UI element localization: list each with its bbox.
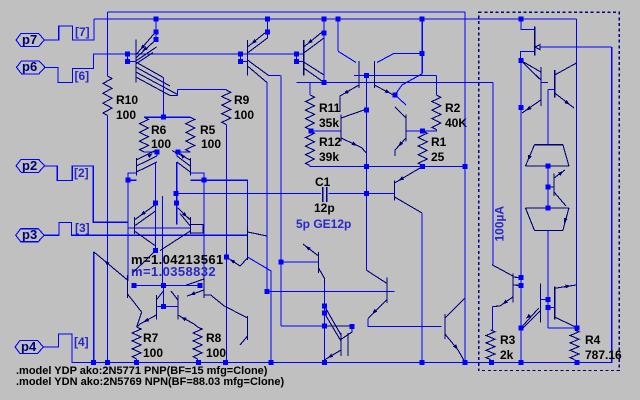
svg-text:787.16: 787.16 [585,348,622,362]
svg-text:R10: R10 [116,93,138,107]
transistor Q5 (below R1) [394,180,396,200]
transistor Q3 (left of C1 column) [340,115,342,142]
wire R6 R5 top bus [144,116,190,118]
collector Q15 to R7 [128,294,142,327]
svg-text:R7: R7 [143,331,159,345]
transistor Q12 stack (PNP x4 top-left) [135,40,137,83]
port p3 [16,229,45,242]
wire mirror line y82 [296,82,493,264]
svg-text:R3: R3 [500,333,516,347]
svg-text:100: 100 [234,108,254,122]
wire centre column x366 [365,75,367,270]
transistor Q10 (mid, near R9) [247,227,249,260]
svg-text:2k: 2k [500,348,514,362]
wire box left column [520,61,522,363]
transistor QD4 QD5 box bottom pair [540,284,554,323]
wire trap1 to trap2 [547,166,549,208]
svg-text:39k: 39k [319,150,339,164]
svg-text:100µA: 100µA [493,206,507,242]
transistor Q14 stack (PNP right-top) [303,40,305,76]
wire p2 run [45,166,191,228]
transistor QO2 output [445,298,465,339]
svg-text:[6]: [6] [75,69,90,83]
wire x465 supply column [464,12,466,362]
resistor R5 [186,117,195,152]
svg-text:[3]: [3] [75,221,90,235]
svg-text:p4: p4 [21,339,37,354]
svg-text:R5: R5 [200,123,216,137]
svg-text:40K: 40K [445,116,467,130]
resistor R4 [570,330,579,360]
svg-text:R6: R6 [151,123,167,137]
wire R1 bottom to rails [367,165,466,167]
svg-text:100: 100 [151,137,171,151]
wire Q16 emitter to R9 col [204,295,226,307]
svg-text:[2]: [2] [74,166,89,180]
wire R11-R12 node to Q3 base [310,130,367,167]
wire rail stub x422 [395,19,422,95]
svg-text:[4]: [4] [74,335,89,349]
svg-text:C1: C1 [315,175,331,189]
wire Q2 emitter node [393,95,406,105]
svg-text:p2: p2 [22,158,37,173]
svg-text:R11: R11 [319,101,341,115]
resistor R3 [486,330,495,360]
wire R9 column [225,125,227,363]
wire x267 column [266,83,268,292]
wire Q8 Q9 emitters to node [134,231,190,251]
transistor QM comp (near 5p) [318,252,320,273]
resistor R10 [103,76,112,116]
resistor R8 [193,327,202,359]
svg-text:R9: R9 [234,93,250,107]
transistor Q17 Q18 bottom centre-left pair [156,295,178,319]
port p4 [15,341,44,354]
wire R10 column [107,12,109,362]
wire Q6 base chain [128,173,136,281]
svg-text:12p: 12p [314,201,335,215]
wire output row y291 [267,291,395,293]
wire R6 R5 bottoms [144,151,190,153]
resistor R12 [306,131,315,166]
wire second rail [94,18,577,20]
transistor QD1 QD2 box top pair [541,67,555,106]
wire C1 node [176,193,367,195]
svg-text:p6: p6 [22,59,37,74]
port p6 [17,61,46,74]
svg-text:R2: R2 [445,101,461,115]
svg-text:p7: p7 [22,32,37,47]
wire x422 vertical [421,213,423,362]
junction squares [154,17,159,22]
svg-text:25: 25 [431,150,445,164]
transistor QD3 mid [553,174,555,197]
transistor QL box left [512,273,514,302]
svg-text:[7]: [7] [75,25,90,39]
svg-text:R4: R4 [585,333,601,347]
transistor QB bottom mid cluster [341,333,348,356]
port p7 [16,34,45,47]
resistor R7 [132,327,141,359]
wire QM collector column [323,283,325,362]
wire emitter join to R6R5 [163,78,226,118]
wire Q12 base taps [128,54,136,61]
wire Q13 base tap [241,54,248,61]
wire net93 lower vertical [93,252,95,362]
wire V+ rail top [108,11,466,13]
wire T4 emitter column [248,257,272,362]
trapezoid PNP pair upper [526,145,569,166]
svg-text:m=1.0358832: m=1.0358832 [131,264,216,279]
svg-text:100: 100 [143,346,163,360]
svg-text:R8: R8 [206,331,222,345]
emitter fan Q14 [304,62,324,82]
svg-text:5p GE12p: 5p GE12p [296,217,351,231]
svg-text:R1: R1 [431,135,447,149]
svg-text:100: 100 [206,346,226,360]
emitter Q15 to net93 [94,251,156,280]
emitter run Q13 [248,60,269,83]
emitter fan Q12 [136,62,178,96]
wire Q12 collector taps [155,19,157,40]
wire x176 through C1 row [176,184,178,208]
resistor R6 [140,117,149,152]
resistor R2 [435,75,437,95]
transistor Q6 Q7 input pair upper [136,158,190,176]
wire trap2 stem [548,230,577,327]
transistor QC1 rotated pnp [521,19,535,30]
resistor R11 [296,82,310,95]
resistor R9 [222,90,231,125]
svg-text:R12: R12 [319,135,341,149]
svg-text:.model YDN ako:2N5769 NPN(BF=8: .model YDN ako:2N5769 NPN(BF=88.03 mfg=C… [16,376,284,388]
wire p4 run and ground bus [44,47,612,362]
wire Q14 base tap [296,54,303,61]
wire base row y285 [134,285,200,287]
capacitor C1 [323,187,327,202]
transistor QX small [226,307,247,345]
wire p6 run [45,54,296,83]
wire p3 run [44,223,247,236]
svg-text:p3: p3 [22,227,37,242]
transistor Q4 (right) [405,115,407,142]
transistor Q8 Q9 lower input pair [134,217,190,234]
wire Q14 collector tap [323,19,325,82]
svg-text:35k: 35k [319,116,339,130]
transistor Q13 (PNP mid-top) [247,40,249,76]
wire p7 to rail [45,19,94,40]
dashed box [479,12,620,370]
wire Q13 collector tap [267,19,269,33]
transistor QO1 output npn [386,278,388,303]
transistor Q1 Q2 centre pair [359,61,374,88]
resistor R1 [418,131,427,166]
trapezoid PNP pair lower [526,208,569,230]
svg-text:100: 100 [116,108,136,122]
wire Q7 base chain [190,173,247,281]
port p2 [16,159,44,172]
wire C1 line to Q5 base [367,192,395,194]
emitters to R7 R8 [137,315,198,327]
svg-text:100: 100 [201,137,221,151]
transistor Q15 Q16 third pair [128,275,205,298]
